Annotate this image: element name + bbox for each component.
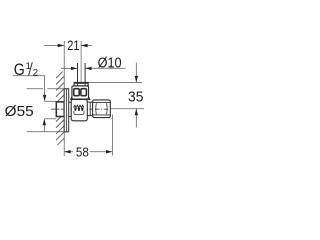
svg-text:21: 21 [67,37,79,53]
svg-text:Ø10: Ø10 [98,55,122,71]
wall hatching [56,72,64,146]
text labels [5,37,144,159]
centerline dashes in tailpiece [57,108,64,110]
dim 21 [44,45,92,47]
centerline right extension (35 bottom reference) [110,108,144,110]
inner serrated detail [74,105,85,114]
dim 35 [135,63,137,128]
svg-text:G: G [14,60,25,79]
svg-text:2: 2 [33,68,38,79]
nut chamfer arcs [96,103,107,114]
valve body [71,100,87,121]
svg-text:Ø55: Ø55 [5,103,34,120]
dim 58 [112,115,114,156]
centerline dashes in nut [95,108,109,110]
nut facet lines [93,103,111,115]
dim Ø55 [27,89,65,132]
G1/2 fraction slash [29,62,33,75]
compression fitting on top outlet [72,86,89,99]
compression nut right [93,100,111,118]
svg-text:1: 1 [26,61,31,72]
escutcheon flange Ø55 [64,89,69,132]
G1/2 leader [13,76,45,96]
horizontal centerline of valve [51,108,110,110]
wall face line / dimension extension line (21, 58) [63,41,65,156]
svg-text:58: 58 [76,144,89,159]
svg-text:35: 35 [128,90,143,106]
dim Ø10 leader [61,67,126,69]
vertical centerline of pipe / extension of 21 dim [80,41,82,99]
boss between flange and body [69,102,72,116]
35 top reference line [88,81,142,83]
outlet stem step [89,102,91,116]
outlet stem [87,102,92,116]
pipe Ø10 [78,63,86,86]
G1/2 tailpiece in wall [56,102,64,117]
